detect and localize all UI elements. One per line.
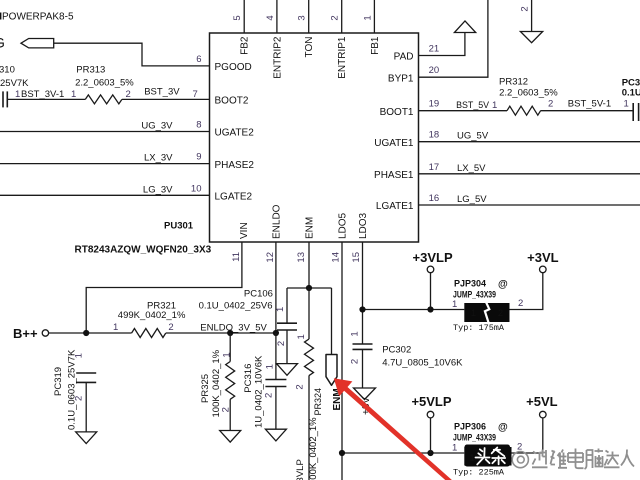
watermark toutiao box (465, 445, 511, 467)
node LDO5 junction (339, 450, 345, 456)
svg-text:BST_3V-1: BST_3V-1 (21, 89, 64, 100)
svg-text:+3VLP: +3VLP (295, 459, 306, 480)
svg-text:15: 15 (351, 252, 362, 263)
svg-text:20: 20 (429, 65, 440, 76)
glyph wei (551, 450, 568, 469)
svg-text:G: G (0, 35, 5, 51)
svg-text:TON: TON (304, 37, 315, 58)
wire pin8 UGATE2 (0, 131, 210, 133)
wire +5VLP row (342, 452, 464, 454)
svg-text:UGATE2: UGATE2 (215, 128, 255, 139)
wire pin21 PAD to power arrow (419, 33, 465, 56)
svg-text:BST_3V: BST_3V (144, 87, 180, 98)
glyph nao (585, 449, 604, 470)
node LDO3 junction (359, 306, 365, 312)
svg-text:POWERPAK8-5: POWERPAK8-5 (2, 12, 74, 23)
ground below PC302 (354, 388, 376, 400)
svg-text:25V7K: 25V7K (0, 78, 29, 89)
svg-text:+3VLP: +3VLP (413, 250, 453, 265)
svg-text:PR312: PR312 (499, 77, 528, 88)
svg-text:2: 2 (168, 322, 173, 333)
svg-text:UG_3V: UG_3V (141, 121, 173, 132)
svg-text:Typ: 225mA: Typ: 225mA (453, 468, 505, 478)
svg-text:LDO5: LDO5 (338, 212, 349, 239)
svg-text:5: 5 (232, 15, 243, 20)
svg-text:PJP304: PJP304 (454, 279, 486, 289)
resistor PR312 (507, 106, 541, 115)
glyph @ (512, 452, 528, 468)
svg-text:4.7U_0805_10V6K: 4.7U_0805_10V6K (382, 357, 463, 368)
svg-text:PC302: PC302 (382, 345, 411, 356)
glyph ren (621, 450, 634, 467)
svg-text:1: 1 (275, 307, 286, 312)
svg-text:2: 2 (276, 341, 287, 346)
capacitor PC302 (353, 344, 373, 349)
svg-text:JUMP_43X39: JUMP_43X39 (453, 290, 496, 300)
wire pin10 LGATE2 (0, 194, 210, 196)
red annotation arrow (334, 378, 453, 480)
svg-text:1: 1 (492, 100, 497, 111)
node pin13 junction (306, 285, 312, 291)
glyph tiao (492, 448, 506, 465)
svg-text:17: 17 (429, 162, 440, 173)
wire jumper to +3VL (510, 273, 543, 310)
svg-text:LGATE2: LGATE2 (215, 192, 253, 203)
svg-text:PJP306: PJP306 (454, 422, 486, 432)
svg-text:2.2_0603_5%: 2.2_0603_5% (75, 78, 134, 89)
svg-text:LX_5V: LX_5V (457, 163, 486, 174)
svg-text:PHASE2: PHASE2 (215, 160, 255, 171)
svg-text:18: 18 (429, 130, 440, 141)
svg-text:16: 16 (429, 193, 440, 204)
svg-text:1: 1 (296, 334, 307, 339)
wire pin13 ENM stub (308, 242, 310, 288)
resistor PR321 (132, 329, 166, 338)
capacitor PC312 (cut at right edge) (633, 103, 638, 121)
svg-text:2: 2 (295, 384, 306, 389)
svg-text:FB1: FB1 (370, 36, 381, 55)
wire pin6 PGOOD to G arrow (54, 43, 210, 66)
svg-text:1: 1 (362, 15, 373, 20)
capacitor PC106 (277, 323, 297, 330)
wire cap to resistor (7, 98, 85, 100)
svg-text:2: 2 (498, 308, 503, 319)
svg-text:12: 12 (265, 252, 276, 263)
svg-text:ENLDO: ENLDO (271, 204, 282, 239)
capacitor PC319 (76, 373, 96, 382)
svg-text:ENTRIP2: ENTRIP2 (272, 36, 283, 79)
svg-text:BST_5V-1: BST_5V-1 (568, 99, 611, 110)
svg-text:2: 2 (518, 298, 523, 309)
svg-text:@: @ (498, 422, 508, 433)
net connector G (left arrow) (21, 39, 54, 48)
svg-text:UG_5V: UG_5V (457, 131, 489, 142)
svg-text:+3VL: +3VL (527, 250, 558, 265)
ground below PR325 (220, 431, 241, 443)
svg-text:1: 1 (113, 322, 118, 333)
wire pin11 VIN route to B++ (86, 242, 242, 333)
svg-text:FB2: FB2 (240, 36, 251, 55)
wire to PC106 (286, 288, 288, 323)
svg-text:LG_5V: LG_5V (457, 194, 487, 205)
glyph xun (532, 450, 548, 468)
wire pin 5 FB2 stub (243, 0, 245, 33)
svg-text:10: 10 (191, 183, 202, 194)
wire pin 3 TON stub (308, 0, 310, 33)
svg-text:4: 4 (265, 15, 276, 20)
svg-text:1: 1 (221, 352, 232, 357)
wire pin19 BOOT1 (419, 110, 508, 112)
node ENLDO junction (273, 330, 279, 336)
wire pin13 junction branch (287, 287, 332, 289)
node B++/PC319 junction (83, 330, 89, 336)
svg-text:2: 2 (221, 407, 232, 412)
svg-text:7: 7 (193, 89, 198, 100)
svg-text:0.1U_0402_25V6: 0.1U_0402_25V6 (199, 301, 273, 312)
svg-text:B++: B++ (13, 326, 38, 341)
svg-text:1: 1 (15, 89, 20, 100)
op-amp U1 : main IC body PU301 (210, 33, 419, 242)
svg-text:ENM: ENM (305, 217, 316, 239)
svg-text:2: 2 (264, 393, 275, 398)
svg-text:1: 1 (624, 99, 629, 110)
svg-text:+5VL: +5VL (526, 394, 557, 409)
svg-text:1: 1 (71, 89, 76, 100)
svg-text:LGATE1: LGATE1 (376, 201, 414, 212)
wire pin 4 ENTRIP2 stub (276, 0, 278, 33)
svg-text:13: 13 (296, 252, 307, 263)
svg-text:1: 1 (350, 331, 361, 336)
svg-text:PR313: PR313 (76, 65, 105, 76)
svg-text:LG_3V: LG_3V (143, 184, 173, 195)
power arrow up (454, 21, 475, 33)
svg-text:2: 2 (126, 89, 131, 100)
+3VLP terminal (430, 273, 432, 310)
ground below PC316 (265, 429, 286, 441)
svg-text:2: 2 (330, 15, 341, 20)
wire pin12 ENLDO stub (275, 242, 277, 333)
power arrow down (net 2) (531, 0, 533, 32)
svg-text:ENTRIP1: ENTRIP1 (337, 36, 348, 79)
svg-text:2.2_0603_5%: 2.2_0603_5% (499, 88, 558, 99)
svg-text:BOOT1: BOOT1 (380, 107, 414, 118)
svg-text:PGOOD: PGOOD (215, 62, 252, 73)
svg-text:LDO3: LDO3 (358, 212, 369, 239)
svg-text:BOOT2: BOOT2 (215, 96, 249, 107)
svg-text:ENLDO_3V_5V: ENLDO_3V_5V (200, 323, 267, 334)
svg-text:PR324: PR324 (313, 388, 323, 416)
svg-text:3: 3 (297, 15, 308, 20)
glyph tou (476, 448, 490, 465)
resistor PR313 (85, 95, 122, 104)
svg-text:PAD: PAD (394, 52, 414, 63)
svg-text:2: 2 (350, 359, 361, 364)
svg-text:1U_0402_10V6K: 1U_0402_10V6K (254, 355, 265, 428)
watermark handle text (512, 449, 634, 470)
svg-text:100K_0402_1%: 100K_0402_1% (308, 417, 319, 480)
+5VLP terminal (430, 418, 432, 453)
svg-text:0.1U: 0.1U (622, 88, 640, 99)
svg-text:PU301: PU301 (164, 221, 194, 232)
svg-text:2: 2 (74, 396, 85, 401)
svg-text:1: 1 (264, 364, 275, 369)
resistor PR325 (vertical) (229, 333, 231, 362)
net connector ENM (pentagon down) (326, 355, 337, 386)
svg-text:PC316: PC316 (243, 364, 254, 393)
ground below PC319 (76, 432, 97, 444)
svg-text:BST_5V: BST_5V (456, 100, 490, 111)
node +5VLP junction (427, 450, 433, 456)
glyph da (604, 451, 620, 468)
svg-text:2: 2 (548, 99, 553, 110)
svg-text:2: 2 (520, 6, 531, 11)
capacitor PC310 (cut at left edge) (3, 91, 7, 107)
wire pin18 UGATE1 (419, 141, 640, 143)
node PR325 junction (227, 330, 233, 336)
wire pin15 LDO3 stub (362, 242, 364, 344)
svg-text:PR325: PR325 (200, 374, 211, 403)
svg-text:1: 1 (469, 453, 474, 463)
wire pin20 BYP1 up to top edge (419, 0, 488, 77)
svg-text:11: 11 (231, 252, 242, 262)
node +3VLP junction (427, 306, 433, 312)
svg-text:VIN: VIN (239, 222, 250, 239)
svg-text:14: 14 (331, 252, 342, 263)
wire pin17 PHASE1 (419, 173, 640, 175)
svg-text:1: 1 (74, 353, 85, 358)
svg-text:21: 21 (429, 44, 440, 55)
wire pin14 LDO5 long stub (341, 242, 343, 480)
wire +3VLP row (363, 309, 465, 311)
wire pin7 BOOT2 left segment (122, 98, 210, 100)
wire jumper to +5VL (512, 418, 543, 453)
cut glyph at left edge (0, 13, 1, 20)
B++ open terminal (42, 330, 48, 336)
svg-text:1: 1 (471, 308, 476, 319)
svg-text:RT8243AZQW_WQFN20_3X3: RT8243AZQW_WQFN20_3X3 (75, 245, 212, 256)
svg-text:PC319: PC319 (53, 367, 64, 396)
svg-text:8: 8 (196, 120, 201, 131)
svg-text:@: @ (498, 279, 508, 290)
svg-text:PC106: PC106 (244, 289, 273, 300)
wire B++ to PR321 (49, 332, 132, 334)
resistor PR324 (vertical) (308, 288, 310, 339)
wire to ENM connector (331, 288, 333, 355)
svg-text:1: 1 (452, 299, 457, 310)
svg-text:PHASE1: PHASE1 (374, 170, 414, 181)
ground below PC106 (277, 364, 298, 376)
wire pin 1 FB1 stub (373, 0, 375, 33)
svg-text:6: 6 (196, 54, 201, 65)
glyph dian (568, 449, 584, 469)
wire pin16 LGATE1 (419, 204, 640, 206)
svg-text:19: 19 (429, 99, 440, 110)
capacitor PC316 (275, 333, 277, 380)
svg-text:499K_0402_1%: 499K_0402_1% (118, 310, 186, 321)
wire PR321 to ENLDO (166, 332, 276, 334)
svg-text:310: 310 (0, 65, 15, 76)
svg-text:9: 9 (196, 152, 201, 163)
svg-text:BYP1: BYP1 (388, 73, 414, 84)
svg-text:+5VLP: +5VLP (411, 394, 451, 409)
svg-text:Typ: 175mA: Typ: 175mA (453, 323, 505, 333)
wire pin9 PHASE2 (0, 163, 210, 165)
svg-text:UGATE1: UGATE1 (374, 138, 414, 149)
svg-text:LX_3V: LX_3V (144, 153, 173, 164)
svg-text:JUMP_43X39: JUMP_43X39 (453, 433, 496, 443)
svg-text:0.1U_0603_25V7K: 0.1U_0603_25V7K (67, 349, 78, 430)
wire pin 2 ENTRIP1 stub (341, 0, 343, 33)
svg-text:1: 1 (452, 443, 457, 454)
